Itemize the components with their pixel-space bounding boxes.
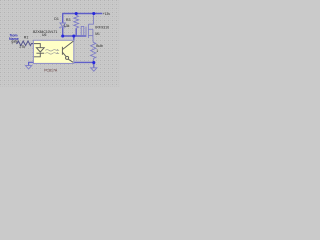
wire: +13v rail [62, 13, 102, 15]
svg-text:PC817A: PC817A [44, 69, 58, 73]
opto internal LED [34, 44, 44, 57]
svg-text:1: 1 [96, 49, 98, 53]
resistor R1 [16, 41, 33, 46]
ground (LED side) [26, 66, 32, 69]
wire: load node to ground [93, 62, 95, 67]
wire: gate net horizontal [63, 35, 86, 37]
svg-text:R3: R3 [66, 18, 71, 22]
resistor R3 [74, 15, 79, 28]
wire: opto collector riser [73, 36, 75, 41]
svg-text:27k: 27k [19, 45, 25, 49]
gate bar [85, 27, 87, 37]
node: zener junction on gate net [61, 34, 64, 37]
svg-text:D1: D1 [54, 17, 59, 21]
node: load/emitter/ground junction [92, 61, 95, 64]
wire: zener bottom lead to node [62, 28, 64, 36]
wire: R3 top stub [75, 14, 77, 16]
wire: zener top lead [62, 14, 64, 24]
wire: emitter net to load node [74, 61, 94, 63]
svg-text:13k: 13k [64, 24, 70, 28]
wire: cathode to ground [29, 62, 34, 65]
background grid [0, 0, 120, 87]
connector and drain lead [92, 29, 94, 42]
node: R3 top junction on +13v rail [75, 12, 78, 15]
wire: R3 bottom stub [75, 28, 77, 36]
stub top [88, 28, 93, 30]
svg-text:U6: U6 [42, 33, 46, 37]
resistor Bulb (lamp load) [91, 42, 96, 62]
opto internal phototransistor [62, 41, 73, 62]
svg-text:M1: M1 [95, 32, 100, 36]
source jog to rail [88, 14, 93, 25]
channel bar [87, 24, 89, 38]
zener diode D1 [60, 23, 66, 28]
svg-text:+13v: +13v [103, 12, 111, 16]
MOSFET M1 [81, 14, 93, 43]
svg-text:Bulb: Bulb [96, 44, 103, 48]
svg-text:R1: R1 [24, 35, 29, 39]
svg-text:IRF9310: IRF9310 [95, 25, 109, 29]
node: collector junction on gate net [72, 34, 75, 37]
stub bottom [88, 35, 93, 37]
optocoupler U6 box [33, 40, 73, 63]
opto internal light arrows [45, 49, 58, 54]
gate lead loop [81, 26, 84, 36]
ground (load side) [91, 68, 97, 71]
node: MOSFET source junction on +13v rail [92, 12, 95, 15]
